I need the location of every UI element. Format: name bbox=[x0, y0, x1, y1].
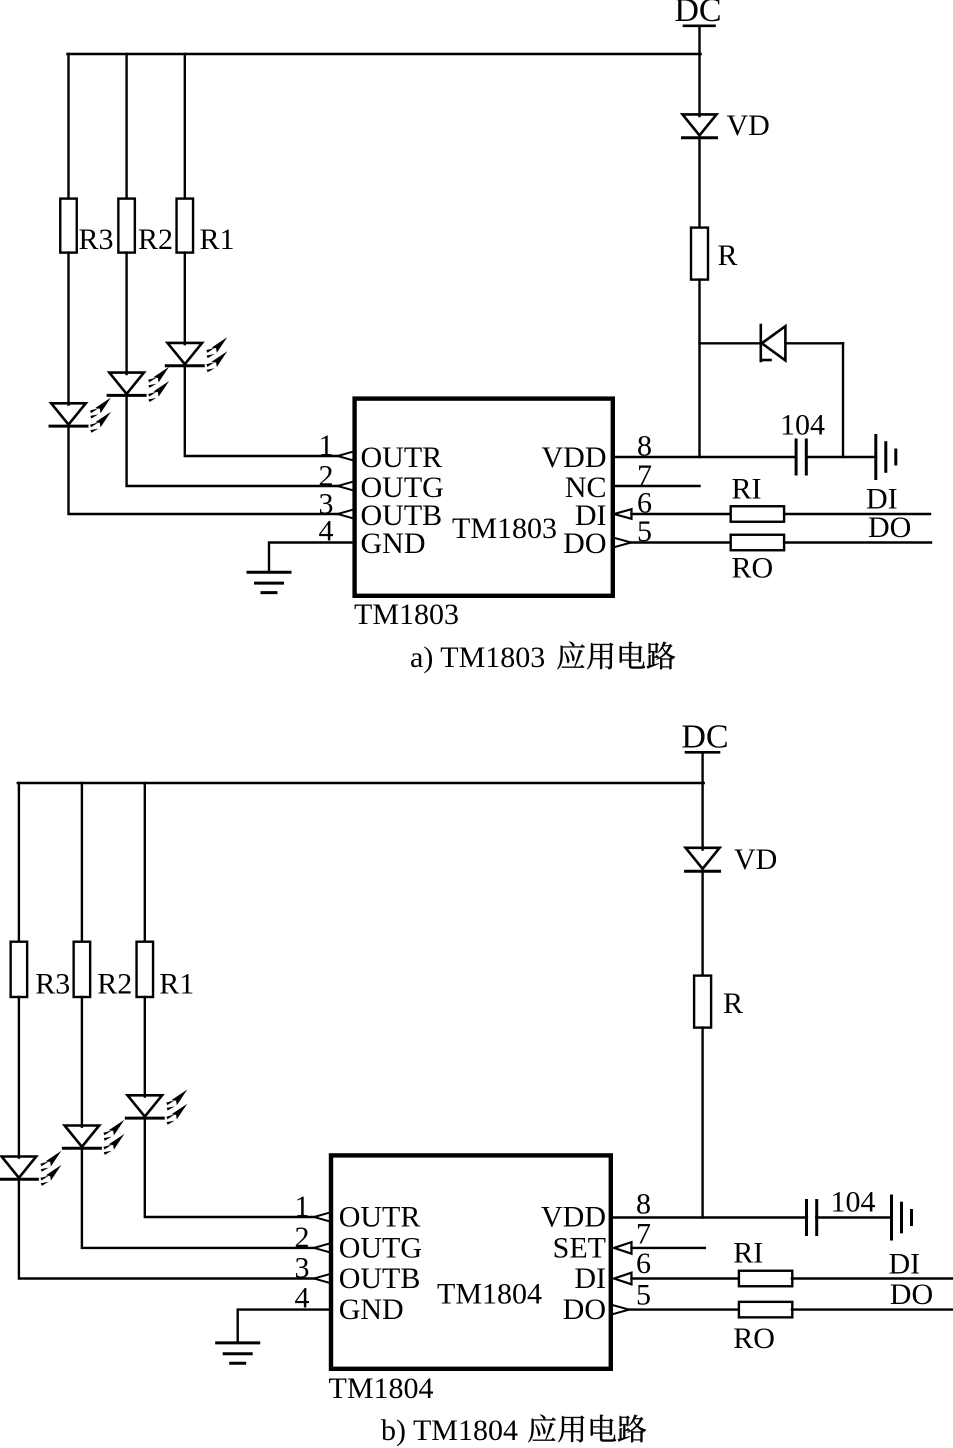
svg-text:104: 104 bbox=[780, 409, 825, 442]
resistor RI (circuit a) bbox=[731, 506, 784, 522]
svg-text:R1: R1 bbox=[200, 223, 235, 256]
svg-text:a) TM1803: a) TM1803 bbox=[410, 641, 545, 674]
svg-text:DO: DO bbox=[563, 527, 606, 560]
wire bbox=[613, 485, 700, 487]
svg-text:R2: R2 bbox=[97, 968, 132, 1001]
svg-text:SET: SET bbox=[553, 1231, 606, 1264]
wire bbox=[269, 543, 355, 573]
capacitor 104 (circuit b) bbox=[807, 1201, 817, 1235]
svg-text:R: R bbox=[723, 987, 743, 1020]
wire bbox=[632, 1277, 740, 1279]
wire bbox=[806, 456, 876, 458]
resistor R3 (circuit b) bbox=[11, 942, 28, 997]
wire bbox=[632, 1247, 705, 1249]
svg-text:TM1803: TM1803 bbox=[354, 598, 459, 631]
wire bbox=[701, 871, 703, 977]
svg-text:6: 6 bbox=[636, 1247, 651, 1280]
svg-text:104: 104 bbox=[831, 1186, 876, 1219]
caption b) TM1804 application circuit bbox=[381, 1414, 646, 1447]
LED VL1 (red, circuit a) bbox=[166, 337, 227, 372]
wire bbox=[701, 752, 703, 783]
svg-text:5: 5 bbox=[636, 1279, 651, 1312]
LED VL1 (red, circuit b) bbox=[126, 1090, 187, 1125]
pin 3 arrow OUTB bbox=[338, 509, 355, 519]
svg-text:8: 8 bbox=[636, 1188, 651, 1221]
resistor R1 (circuit b) bbox=[137, 942, 154, 997]
resistor R (circuit a) bbox=[691, 228, 708, 280]
svg-text:1: 1 bbox=[295, 1190, 310, 1223]
wire bbox=[238, 1310, 331, 1343]
pin 7 arrow SET input bbox=[614, 1242, 632, 1254]
svg-text:OUTG: OUTG bbox=[339, 1231, 422, 1264]
pin 1 arrow OUTR bbox=[314, 1212, 331, 1222]
wire bbox=[18, 783, 20, 943]
resistor RI (circuit b) bbox=[739, 1271, 792, 1287]
wire bbox=[613, 456, 796, 458]
wire bbox=[145, 1118, 314, 1217]
zener diode clamp (circuit a) bbox=[761, 325, 786, 361]
wire bbox=[698, 26, 700, 54]
resistor RO (circuit a) bbox=[731, 535, 784, 551]
svg-text:b) TM1804: b) TM1804 bbox=[381, 1414, 518, 1447]
svg-text:GND: GND bbox=[361, 527, 426, 560]
wire bbox=[632, 513, 732, 515]
svg-text:R3: R3 bbox=[35, 968, 70, 1001]
wire bbox=[784, 541, 931, 543]
wire bbox=[631, 541, 731, 543]
svg-text:3: 3 bbox=[295, 1252, 310, 1285]
wire bbox=[184, 54, 186, 200]
svg-text:OUTR: OUTR bbox=[339, 1200, 421, 1233]
resistor R (circuit b) bbox=[694, 976, 711, 1028]
svg-text:1: 1 bbox=[319, 429, 334, 462]
svg-text:TM1803: TM1803 bbox=[452, 512, 557, 545]
op-amp U1 TM1803 IC body bbox=[355, 399, 613, 596]
pin 6 arrow DI input bbox=[614, 509, 632, 519]
svg-text:TM1804: TM1804 bbox=[437, 1278, 542, 1311]
svg-text:R1: R1 bbox=[159, 968, 194, 1001]
wire bbox=[842, 343, 844, 457]
svg-text:TM1804: TM1804 bbox=[329, 1372, 434, 1405]
pin 5 arrow DO output bbox=[612, 1305, 630, 1315]
svg-text:VDD: VDD bbox=[541, 1200, 606, 1233]
wire bbox=[629, 1308, 739, 1310]
wire bbox=[792, 1308, 953, 1310]
ground (circuit b, right, power return) bbox=[892, 1196, 912, 1239]
svg-text:7: 7 bbox=[636, 1218, 651, 1251]
ground (circuit a, right, power return) bbox=[876, 436, 896, 479]
wire bbox=[792, 1277, 953, 1279]
wire bbox=[81, 997, 83, 1127]
svg-text:DI: DI bbox=[889, 1248, 921, 1281]
svg-text:VD: VD bbox=[727, 109, 770, 142]
capacitor 104 (circuit a) bbox=[796, 440, 806, 474]
wire bbox=[700, 342, 761, 344]
wire bbox=[184, 253, 186, 345]
wire bbox=[816, 1216, 891, 1218]
wire bbox=[82, 1148, 314, 1248]
svg-text:VD: VD bbox=[734, 843, 777, 876]
svg-text:DO: DO bbox=[868, 511, 911, 544]
node DC supply (circuit b) bbox=[681, 719, 728, 756]
svg-text:R2: R2 bbox=[138, 223, 173, 256]
svg-text:OUTB: OUTB bbox=[339, 1262, 421, 1295]
wire bbox=[19, 1179, 314, 1278]
resistor R1 (circuit a) bbox=[177, 199, 194, 253]
pin 2 arrow OUTG bbox=[338, 481, 355, 491]
svg-text:R: R bbox=[718, 239, 738, 272]
ground (circuit b, IC pin 4) bbox=[217, 1343, 259, 1363]
wire bbox=[127, 395, 338, 486]
resistor RO (circuit b) bbox=[739, 1302, 792, 1318]
svg-text:RI: RI bbox=[732, 473, 762, 506]
wire bbox=[69, 426, 338, 514]
diode VD (circuit b) bbox=[686, 848, 720, 871]
svg-text:DC: DC bbox=[681, 719, 728, 756]
svg-text:GND: GND bbox=[339, 1293, 404, 1326]
resistor R3 (circuit a) bbox=[60, 199, 77, 253]
svg-text:VDD: VDD bbox=[542, 441, 607, 474]
pin 3 arrow OUTB bbox=[314, 1274, 331, 1284]
LED VL2 (green, circuit a) bbox=[108, 367, 169, 402]
wire bbox=[698, 280, 700, 457]
svg-text:RO: RO bbox=[732, 552, 774, 585]
wire VDD supply rail bbox=[18, 782, 704, 784]
LED VL3 (blue, circuit b) bbox=[0, 1151, 61, 1186]
pin 6 arrow DI input bbox=[614, 1273, 632, 1285]
diode VD (circuit a) bbox=[683, 114, 717, 137]
wire bbox=[67, 54, 69, 200]
wire bbox=[611, 1216, 807, 1218]
LED VL2 (green, circuit b) bbox=[63, 1120, 124, 1155]
svg-text:DO: DO bbox=[890, 1278, 933, 1311]
svg-text:RO: RO bbox=[733, 1322, 775, 1355]
svg-text:DI: DI bbox=[574, 1262, 606, 1295]
resistor R2 (circuit b) bbox=[74, 942, 91, 997]
wire bbox=[67, 253, 69, 405]
LED VL3 (blue, circuit a) bbox=[50, 398, 111, 433]
svg-text:RI: RI bbox=[733, 1237, 763, 1270]
wire bbox=[18, 997, 20, 1158]
op-amp U1 TM1804 IC body bbox=[331, 1155, 611, 1368]
wire VDD supply rail bbox=[67, 53, 700, 55]
node DC supply (circuit a) bbox=[674, 0, 721, 29]
wire bbox=[125, 253, 127, 374]
wire bbox=[784, 513, 930, 515]
wire bbox=[185, 366, 338, 456]
wire bbox=[125, 54, 127, 200]
wire bbox=[701, 1028, 703, 1218]
pin 5 arrow DO output bbox=[614, 538, 632, 548]
svg-text:2: 2 bbox=[295, 1221, 310, 1254]
wire bbox=[144, 997, 146, 1097]
svg-text:R3: R3 bbox=[79, 223, 114, 256]
wire bbox=[81, 783, 83, 943]
wire bbox=[701, 783, 703, 850]
svg-text:DO: DO bbox=[563, 1293, 606, 1326]
svg-text:OUTR: OUTR bbox=[361, 441, 443, 474]
resistor R2 (circuit a) bbox=[118, 199, 135, 253]
ground (circuit a, IC pin 4) bbox=[248, 572, 290, 592]
wire bbox=[785, 342, 843, 344]
caption a) TM1803 application circuit bbox=[410, 641, 675, 674]
pin 2 arrow OUTG bbox=[314, 1243, 331, 1253]
wire bbox=[698, 54, 700, 116]
wire bbox=[144, 783, 146, 943]
pin 1 arrow OUTR bbox=[338, 451, 355, 461]
wire bbox=[698, 138, 700, 229]
